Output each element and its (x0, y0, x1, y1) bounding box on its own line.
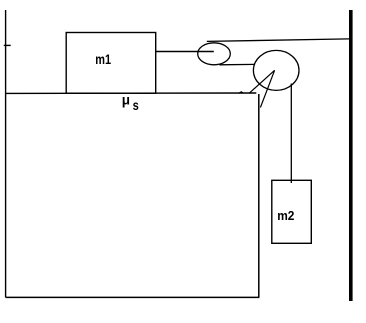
pulley support arm A (249, 70, 275, 93)
wire string small pulley top to right wall (207, 39, 349, 42)
right wall (thick) (349, 10, 353, 301)
svg-text:m1: m1 (95, 51, 111, 67)
wire string big pulley to m2 (290, 84, 292, 184)
table top surface (6, 92, 257, 94)
block m1 (66, 33, 156, 94)
svg-text:s: s (133, 98, 139, 113)
svg-text:m2: m2 (277, 209, 294, 223)
block m2 (272, 180, 312, 243)
table bottom edge (6, 296, 260, 298)
wire string small pulley to big pulley (219, 63, 254, 65)
small nub on table line (239, 92, 244, 94)
small pulley (198, 43, 231, 65)
svg-text:μ: μ (122, 93, 130, 108)
table right edge (258, 94, 260, 297)
wire string m1 to small pulley (156, 51, 214, 53)
left wall vertical line (5, 10, 7, 297)
tick on left wall (4, 44, 11, 46)
pulley support arm B (260, 70, 274, 107)
big pulley (253, 50, 299, 90)
